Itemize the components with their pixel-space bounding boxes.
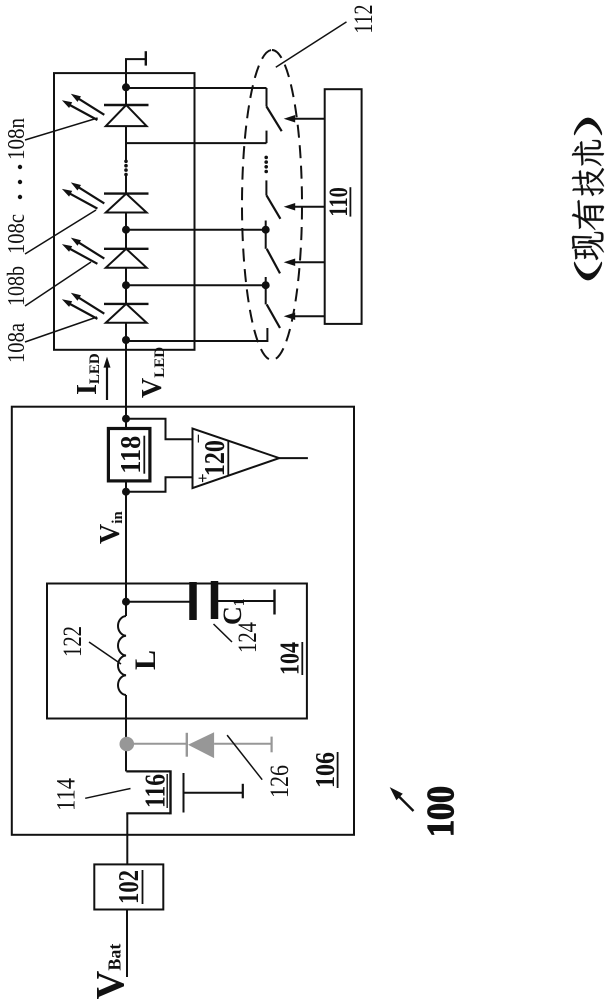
svg-text:114: 114: [52, 778, 81, 811]
LED 108n cathode bar: [104, 104, 149, 106]
svg-text:102: 102: [114, 870, 145, 904]
LED 108c emission arrow upper: [77, 186, 104, 203]
transistor 116 gate lead: [184, 792, 243, 794]
LED 108b cathode bar: [104, 248, 149, 250]
switch S1 left stub: [266, 131, 268, 144]
converter block 102: [94, 864, 163, 909]
wire 102 to transistor 116 drain: [126, 813, 128, 864]
svg-text:L: L: [129, 650, 162, 670]
leader line 108c: [25, 210, 96, 254]
control arrow to switch S3: [293, 261, 325, 263]
label ellipsis dots between 108c and 108n: [18, 195, 22, 199]
capacitor C1 ground tick: [273, 590, 275, 615]
switch S2 left stub: [265, 221, 267, 230]
switch node (gray junction): [120, 737, 135, 752]
transistor 116 channel bar: [169, 770, 171, 814]
wire 118 to LED string: [125, 339, 127, 429]
LED 108b emission arrow lower: [68, 248, 97, 264]
svg-text:126: 126: [265, 765, 294, 798]
node 118 right: [122, 415, 130, 423]
svg-text:Vin: Vin: [95, 511, 126, 544]
leader line 108a: [25, 317, 97, 342]
node switch S3-S4 junction: [262, 281, 270, 289]
leader line 126: [227, 735, 262, 780]
capacitor C1 bottom lead: [218, 600, 275, 602]
LED 108a emission arrow lower: [68, 303, 97, 319]
LED 108n emission arrow lower: [68, 104, 97, 120]
driver block 106 box: [12, 407, 354, 835]
switch row continuation dots: [264, 170, 268, 174]
switch S2 blade: [266, 195, 280, 219]
svg-text:104: 104: [275, 642, 305, 675]
control arrow to switch S4: [293, 315, 325, 317]
LED 108a cathode bar: [104, 303, 149, 305]
node LED string top: [122, 83, 130, 91]
switch S3 right stub: [265, 230, 267, 249]
switch S1 right stub: [266, 88, 268, 107]
diode 126 ground tick: [271, 737, 273, 753]
wire tap node to switch S3: [126, 229, 266, 231]
wire tap node to switch S4: [126, 284, 266, 286]
wire to ground: [126, 59, 146, 87]
svg-text:108a: 108a: [4, 323, 30, 363]
wire opamp non-inverting input: [126, 477, 193, 491]
svg-text:112: 112: [349, 5, 378, 34]
figure arrow 100: [396, 794, 414, 812]
svg-text:100: 100: [420, 786, 462, 837]
wire opamp output: [279, 457, 308, 459]
node VLED: [122, 336, 130, 344]
arrow ILED: [106, 364, 108, 400]
svg-text:108b: 108b: [4, 266, 30, 306]
svg-text:122: 122: [58, 626, 87, 657]
sense resistor 118 box: [108, 429, 149, 481]
switch S4 blade: [267, 304, 280, 328]
LED string box: [54, 73, 195, 350]
ground tick: [145, 51, 147, 65]
node 118 left: [122, 488, 130, 496]
node switch S2-S3 junction: [262, 226, 270, 234]
svg-text:ILED: ILED: [72, 353, 103, 395]
svg-text:118: 118: [116, 436, 147, 474]
inductor L 122 coil: [118, 616, 126, 695]
transistor Q 116 drain lead: [126, 812, 170, 814]
svg-text:110: 110: [324, 187, 353, 216]
diode 126 cathode branch wire: [130, 743, 187, 745]
LED 108n emission arrow upper: [77, 98, 104, 115]
node between 108b 108c: [122, 226, 130, 234]
switch S3 left stub: [265, 277, 267, 285]
capacitor C1 top plate: [189, 582, 197, 620]
wire tap node 143 to switch S1 left: [126, 142, 267, 144]
wire 116 source to switch node: [125, 695, 127, 771]
wire opamp inverting input: [126, 419, 193, 440]
diode 126 anode lead: [214, 743, 272, 745]
LED 108b triangle: [106, 249, 147, 268]
diode 126 triangle: [188, 732, 214, 758]
switch S4 right stub: [265, 285, 267, 304]
LED 108c cathode bar: [104, 192, 149, 194]
svg-text:124: 124: [233, 622, 262, 653]
node Vin junction: [122, 598, 130, 606]
svg-text:VBat: VBat: [88, 944, 133, 1000]
filter block 104 box: [47, 584, 307, 719]
switch S3 blade: [267, 249, 280, 274]
switch S2 right stub: [265, 180, 267, 195]
svg-text:106: 106: [310, 752, 340, 788]
wire inductor to Vin node: [125, 481, 127, 616]
svg-text:VLED: VLED: [137, 347, 168, 398]
svg-text:120: 120: [200, 440, 231, 476]
op-amp U 120 triangle: [193, 429, 280, 489]
leader line 122: [89, 642, 121, 664]
diode 126 cathode bar: [186, 733, 188, 757]
transistor 116 gate plate: [183, 773, 185, 813]
dashed ellipse 112 around switches: [242, 50, 302, 360]
LED 108a emission arrow upper: [77, 297, 104, 314]
leader line 114: [85, 789, 130, 799]
control block 110 box: [325, 89, 362, 324]
wire VBat to converter 102: [126, 910, 128, 978]
transistor 116 source lead: [126, 770, 170, 772]
transistor 116 gate terminal tick: [242, 784, 244, 799]
caption text (prior art) in Chinese: [572, 118, 604, 280]
control arrow to switch S2: [293, 206, 325, 208]
wire tap VLED node to switch S4 left: [126, 328, 267, 341]
LED 108c triangle: [106, 194, 147, 213]
svg-text:C1: C1: [218, 598, 248, 625]
switch S1 blade: [267, 107, 282, 132]
leader line 124: [214, 624, 233, 642]
capacitor C1 top lead: [126, 601, 190, 603]
control arrow to switch S1: [293, 118, 325, 120]
LED 108a triangle: [106, 304, 147, 323]
node between 108a 108b: [122, 281, 130, 289]
leader line 108n: [25, 118, 98, 140]
LED 108n triangle: [106, 105, 147, 126]
LED chain continuation dots: [124, 173, 128, 177]
leader line 108b: [25, 262, 91, 306]
wire LED chain right section: [125, 87, 127, 160]
wire LED chain left section: [125, 176, 127, 340]
LED 108b emission arrow upper: [77, 242, 104, 259]
leader line 112: [276, 22, 347, 67]
capacitor C1 bottom plate: [211, 581, 219, 619]
LED 108c emission arrow lower: [68, 193, 97, 209]
wire tap top node to switch S1: [126, 87, 267, 89]
svg-text:108c: 108c: [4, 214, 30, 254]
